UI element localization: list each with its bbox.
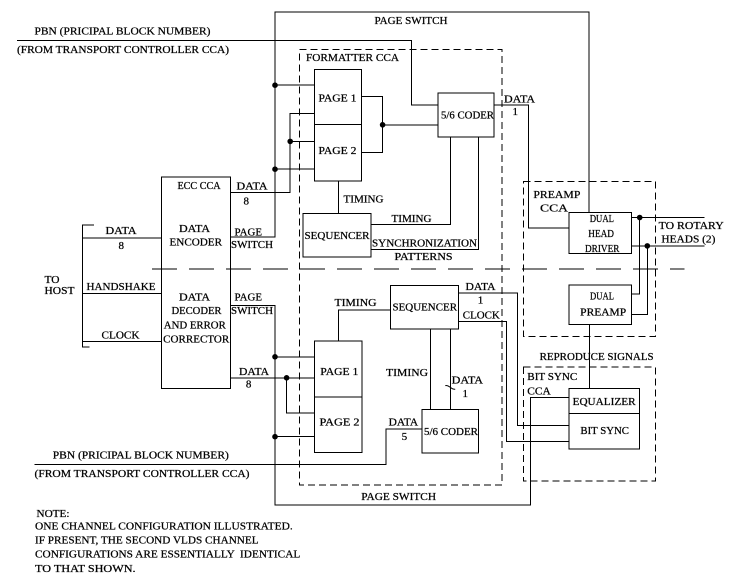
svg-text:BIT SYNC: BIT SYNC <box>527 371 577 383</box>
wire page switch tap to PAGE 1 <box>275 84 315 86</box>
block PAGE 1 (record) <box>315 70 362 125</box>
svg-text:PAGE 1: PAGE 1 <box>319 93 357 105</box>
block PAGE 2 (reproduce) <box>315 397 362 453</box>
svg-text:DATA: DATA <box>239 366 269 378</box>
svg-text:DECODER: DECODER <box>172 305 223 317</box>
svg-text:ENCODER: ENCODER <box>170 237 223 249</box>
svg-text:PBN (PRICIPAL BLOCK NUMBER): PBN (PRICIPAL BLOCK NUMBER) <box>53 450 229 462</box>
svg-text:HANDSHAKE: HANDSHAKE <box>87 281 156 293</box>
wire head driver output A <box>632 217 705 219</box>
junction dot output A <box>637 215 643 221</box>
svg-text:DATA: DATA <box>106 225 137 237</box>
svg-text:CORRECTOR: CORRECTOR <box>163 333 230 345</box>
wire TIMING sequencer to 5/6 coder (reproduce) <box>429 329 431 410</box>
svg-text:SYNCHRONIZATION: SYNCHRONIZATION <box>372 238 477 250</box>
svg-text:NOTE:: NOTE: <box>37 508 70 520</box>
block SEQUENCER (reproduce) <box>390 285 458 329</box>
bus slash mark <box>445 385 455 389</box>
block EQUALIZER <box>569 389 639 414</box>
svg-text:PAGE SWITCH: PAGE SWITCH <box>361 491 436 503</box>
wire record PAGE SWITCH path (ECC to DUAL HEAD DRIVER) <box>230 12 589 237</box>
svg-text:5: 5 <box>402 431 408 443</box>
wire PBN input (bottom) to 5/6 coder <box>35 429 423 464</box>
block 5/6 CODER (record) <box>438 93 494 137</box>
svg-text:5/6 CODER: 5/6 CODER <box>424 426 479 438</box>
svg-text:DATA: DATA <box>179 292 210 304</box>
wire host DATA 8 <box>83 237 162 239</box>
svg-text:PREAMP: PREAMP <box>580 307 626 319</box>
block SEQUENCER (record) <box>303 214 371 257</box>
wire SYNCHRONIZATION PATTERNS coder to sequencer <box>371 137 479 250</box>
svg-text:PAGE 2: PAGE 2 <box>320 416 360 428</box>
wire DATA 8 branch to PAGE 2 <box>290 140 314 142</box>
svg-text:REPRODUCE SIGNALS: REPRODUCE SIGNALS <box>540 351 654 363</box>
svg-text:DUAL: DUAL <box>590 213 615 225</box>
svg-text:HEAD: HEAD <box>588 228 614 240</box>
svg-text:BIT SYNC: BIT SYNC <box>580 425 629 437</box>
wire page switch tap to PAGE 2 (reproduce) <box>275 436 315 438</box>
svg-text:CONFIGURATIONS ARE ESSENTIALLY: CONFIGURATIONS ARE ESSENTIALLY IDENTICAL <box>35 549 301 561</box>
svg-text:(FROM TRANSPORT CONTROLLER CCA: (FROM TRANSPORT CONTROLLER CCA) <box>35 468 250 480</box>
wire page switch tap to PAGE 1 (reproduce) <box>275 356 315 358</box>
svg-text:(FROM TRANSPORT CONTROLLER CCA: (FROM TRANSPORT CONTROLLER CCA) <box>17 44 229 56</box>
junction dot pages bus <box>380 122 386 128</box>
wire coder DATA 1 out to DUAL HEAD DRIVER <box>494 105 569 228</box>
svg-text:DATA: DATA <box>389 416 419 428</box>
svg-text:PBN (PRICIPAL BLOCK NUMBER): PBN (PRICIPAL BLOCK NUMBER) <box>35 25 211 37</box>
svg-text:DRIVER: DRIVER <box>585 243 620 255</box>
svg-text:ECC CCA: ECC CCA <box>178 180 221 192</box>
wire HANDSHAKE <box>83 292 162 294</box>
wire ECC DATA 8 out (record) <box>230 113 314 192</box>
svg-text:DATA: DATA <box>237 181 268 193</box>
svg-text:CCA: CCA <box>527 386 550 398</box>
junction dot page switch / PAGE 2 <box>272 166 278 172</box>
svg-text:TO ROTARY: TO ROTARY <box>659 220 724 232</box>
block 5/6 CODER (reproduce) <box>422 410 478 453</box>
svg-text:8: 8 <box>119 240 125 252</box>
wire TIMING coder to sequencer (record) <box>371 137 451 225</box>
block DUAL HEAD DRIVER <box>569 213 632 254</box>
svg-text:CLOCK: CLOCK <box>102 330 140 342</box>
junction dot page switch / PAGE 1 (reproduce) <box>272 354 278 360</box>
block ECC CCA <box>162 177 231 389</box>
svg-text:1: 1 <box>478 294 484 306</box>
svg-text:DATA: DATA <box>504 94 535 106</box>
wire DATA 8 branch to PAGE 2 (reproduce) <box>287 378 315 413</box>
svg-text:TIMING: TIMING <box>392 213 432 225</box>
junction dot DATA 8 branch <box>287 139 293 145</box>
svg-text:DATA: DATA <box>452 375 483 387</box>
svg-text:PAGE 1: PAGE 1 <box>320 366 358 378</box>
wire DATA 1 sequencer to 5/6 coder (reproduce) <box>450 329 452 410</box>
dashed box BIT SYNC CCA <box>524 367 656 481</box>
svg-text:CLOCK: CLOCK <box>463 310 500 322</box>
svg-text:TIMING: TIMING <box>386 367 428 379</box>
svg-text:TIMING: TIMING <box>335 297 377 309</box>
junction dot output B <box>645 243 651 249</box>
svg-text:1: 1 <box>463 388 469 400</box>
block BIT SYNC <box>569 413 639 449</box>
wire head A to dual preamp <box>632 218 640 295</box>
node TO HOST bracket <box>83 225 95 347</box>
dashed box FORMATTER CCA <box>300 50 503 485</box>
junction dot page switch / PAGE 1 <box>272 82 278 88</box>
svg-text:TIMING: TIMING <box>344 194 384 206</box>
svg-text:SEQUENCER: SEQUENCER <box>393 302 458 314</box>
svg-text:PREAMP: PREAMP <box>533 189 580 201</box>
separator long-dash line <box>152 268 685 270</box>
wire sequencer CLOCK to BIT SYNC <box>459 321 570 441</box>
wire reproduce PAGE SWITCH path (ECC to EQUALIZER) <box>230 305 569 505</box>
junction dot DATA 8 branch (reproduce) <box>284 375 290 381</box>
block DUAL PREAMP <box>569 285 632 324</box>
wire PAGE 2 to SEQUENCER (record TIMING) <box>338 181 340 214</box>
svg-text:PATTERNS: PATTERNS <box>395 251 453 263</box>
svg-text:CCA: CCA <box>540 202 568 214</box>
wire dual preamp to equalizer <box>589 325 591 389</box>
svg-text:IF PRESENT, THE SECOND VLDS CH: IF PRESENT, THE SECOND VLDS CHANNEL <box>35 535 259 547</box>
wire TIMING page1 to sequencer (reproduce) <box>338 310 390 341</box>
svg-text:SWITCH: SWITCH <box>231 239 273 251</box>
wire ECC DATA 8 (reproduce) <box>230 377 314 379</box>
svg-text:HOST: HOST <box>45 285 75 297</box>
svg-text:FORMATTER CCA: FORMATTER CCA <box>306 52 399 64</box>
wire PAGE1/PAGE2 outputs to 5/6 coder <box>361 96 382 152</box>
wire page switch tap to PAGE 2 <box>275 168 315 170</box>
svg-text:PAGE: PAGE <box>235 292 263 304</box>
svg-text:DUAL: DUAL <box>590 291 614 303</box>
svg-text:8: 8 <box>244 196 250 208</box>
junction dot page switch / PAGE 2 (reproduce) <box>272 434 278 440</box>
block PAGE 1 (reproduce) <box>315 341 362 397</box>
svg-text:EQUALIZER: EQUALIZER <box>573 396 637 408</box>
wire head driver output B <box>632 245 705 247</box>
dashed box PREAMP CCA <box>524 182 656 337</box>
svg-text:DATA: DATA <box>179 223 210 235</box>
svg-text:ONE CHANNEL CONFIGURATION ILLU: ONE CHANNEL CONFIGURATION ILLUSTRATED. <box>35 521 293 533</box>
block PAGE 2 (record) <box>315 125 362 181</box>
svg-text:AND ERROR: AND ERROR <box>164 319 227 331</box>
wire bus tap to coder <box>383 124 439 126</box>
wire PBN input (top) <box>17 40 438 105</box>
svg-text:PAGE 2: PAGE 2 <box>319 145 357 157</box>
svg-text:HEADS (2): HEADS (2) <box>661 233 715 245</box>
svg-text:5/6 CODER: 5/6 CODER <box>441 110 495 122</box>
svg-text:1: 1 <box>513 106 519 118</box>
svg-text:PAGE: PAGE <box>235 227 263 239</box>
svg-text:SWITCH: SWITCH <box>231 305 273 317</box>
svg-text:SEQUENCER: SEQUENCER <box>305 230 371 242</box>
wire sequencer DATA 1 to BIT SYNC <box>459 293 570 426</box>
svg-text:DATA: DATA <box>466 281 496 293</box>
wire CLOCK (host) <box>83 340 162 342</box>
wire head B to dual preamp <box>632 246 648 315</box>
svg-text:PAGE SWITCH: PAGE SWITCH <box>375 15 448 27</box>
svg-text:8: 8 <box>246 378 252 390</box>
svg-text:TO THAT SHOWN.: TO THAT SHOWN. <box>35 563 136 575</box>
